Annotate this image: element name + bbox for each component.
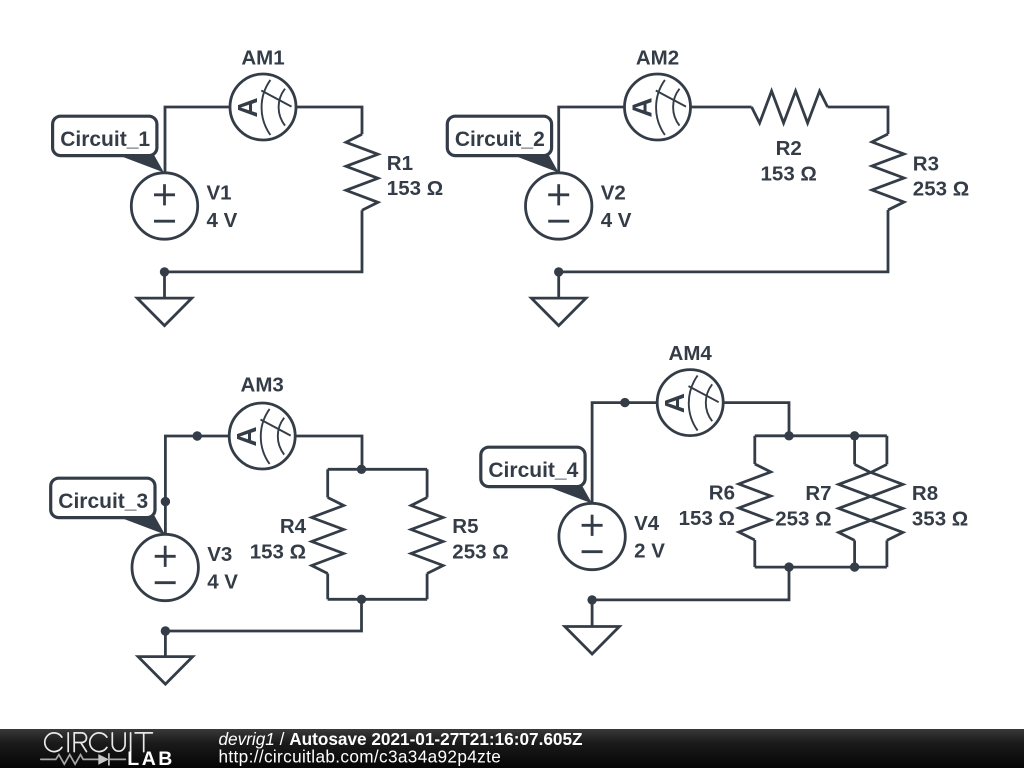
wire V4 top to AM4 left (Circuit 4) [592, 403, 657, 504]
svg-text:R6: R6 [709, 482, 735, 505]
wire R4 top lead [326, 469, 329, 497]
voltage source V1 [131, 173, 197, 239]
wire AM4 right to parallel rail [723, 403, 789, 436]
svg-text:R5: R5 [452, 515, 478, 538]
wire node to ground (Circuit 3) [164, 631, 167, 657]
wire node to ground (Circuit 4) [591, 600, 594, 627]
label AM3 [241, 374, 284, 397]
svg-text:A: A [232, 97, 263, 117]
resistor R2 [752, 91, 828, 123]
svg-text:4 V: 4 V [207, 209, 238, 232]
label V4 value [634, 512, 665, 562]
wire rail to bottom wire circuit 3 [165, 599, 361, 631]
svg-text:R1: R1 [387, 152, 413, 175]
node junction dot circuit 3 [161, 626, 170, 635]
svg-text:253 Ω: 253 Ω [452, 541, 508, 564]
wire V2 top to AM2 left (Circuit 2) [559, 107, 625, 173]
CircuitLab logo CIRCUIT [41, 733, 153, 765]
wire AM3 right to parallel rail [295, 436, 362, 469]
svg-text:R8: R8 [912, 482, 938, 505]
label R1 value [387, 152, 443, 200]
junction dot bottom rail circuit 3 [357, 595, 366, 604]
label V1 value [207, 182, 238, 232]
svg-text:V2: V2 [601, 182, 626, 205]
node label Circuit_4 [481, 447, 592, 503]
svg-text:153 Ω: 153 Ω [250, 541, 306, 564]
svg-text:AM4: AM4 [669, 342, 713, 365]
label AM1 [241, 47, 284, 70]
svg-text:V4: V4 [634, 512, 660, 535]
wire R8 bottom lead [886, 540, 889, 567]
wire parallel bottom rail circuit 4 [755, 566, 887, 569]
node label Circuit_1 [53, 116, 164, 172]
svg-text:AM3: AM3 [241, 374, 284, 397]
wire AM2 right to R2 left [691, 106, 752, 109]
svg-text:Circuit_2: Circuit_2 [455, 128, 545, 151]
ammeter AM4 [657, 370, 723, 436]
label R8 value [912, 482, 968, 530]
svg-text:AM1: AM1 [241, 47, 284, 70]
svg-text:153 Ω: 153 Ω [679, 507, 735, 530]
wire R3 bottom to V2 bottom node [559, 210, 888, 272]
svg-text:Circuit_4: Circuit_4 [488, 459, 578, 482]
svg-text:V3: V3 [207, 543, 232, 566]
junction dot top rail circuit 3 [357, 465, 366, 474]
svg-text:153 Ω: 153 Ω [761, 162, 817, 185]
junction dot left wire circuit 3 [161, 497, 170, 506]
label R4 value [250, 515, 307, 564]
wire R7 bottom lead [853, 540, 856, 567]
svg-text:353 Ω: 353 Ω [912, 507, 968, 530]
ammeter AM2 [625, 74, 691, 140]
ground circuit 3 [138, 657, 193, 685]
svg-text:4 V: 4 V [601, 209, 632, 232]
node junction dot circuit 1 [160, 267, 169, 276]
wire AM1 right to R1 top [296, 107, 362, 134]
wire rail to bottom wire circuit 4 [592, 567, 789, 600]
label AM2 [636, 47, 679, 70]
wire R5 top lead [426, 469, 429, 497]
svg-text:A: A [231, 426, 262, 446]
label R7 value [775, 482, 831, 530]
junction dot top wire circuit 4 [620, 398, 629, 407]
label V3 value [207, 543, 238, 593]
wire R4 bottom lead [326, 574, 329, 600]
junction dot top rail A circuit 4 [784, 431, 793, 440]
resistor R4 [312, 498, 344, 574]
svg-text:2 V: 2 V [634, 540, 665, 563]
node junction dot circuit 4 [587, 595, 596, 604]
junction dot bottom rail A circuit 4 [784, 562, 793, 571]
junction dot bottom rail B circuit 4 [850, 562, 859, 571]
voltage source V2 [526, 173, 592, 239]
svg-text:Circuit_1: Circuit_1 [60, 128, 150, 151]
label AM4 [669, 342, 713, 365]
label R3 value [913, 153, 969, 201]
svg-text:A: A [659, 393, 690, 413]
ammeter AM1 [230, 74, 296, 140]
svg-text:253 Ω: 253 Ω [775, 507, 831, 530]
resistor R3 [872, 134, 904, 210]
resistor R7 [839, 464, 871, 540]
wire R6 bottom lead [753, 540, 756, 567]
wire node to ground (Circuit 2) [557, 272, 560, 298]
label R5 value [452, 515, 508, 564]
wire R6 top lead [753, 436, 756, 464]
resistor R8 [871, 464, 903, 540]
svg-text:4 V: 4 V [207, 571, 238, 594]
resistor R5 [411, 498, 443, 574]
resistor R6 [739, 464, 771, 540]
label V2 value [601, 182, 632, 232]
svg-text:Circuit_3: Circuit_3 [58, 490, 148, 513]
svg-text:153 Ω: 153 Ω [387, 177, 443, 200]
svg-text:R4: R4 [280, 515, 307, 538]
node label Circuit_3 [51, 478, 165, 534]
wire R7 top lead [853, 436, 856, 465]
wire node to ground (Circuit 1) [163, 272, 166, 298]
junction dot top wire circuit 3 [193, 431, 202, 440]
svg-text:R2: R2 [776, 137, 802, 160]
junction dot top rail B circuit 4 [850, 431, 859, 440]
wire V3 top to AM3 left (Circuit 3) [165, 436, 229, 534]
svg-text:R3: R3 [913, 153, 939, 176]
wire R1 bottom to V1 bottom node [165, 210, 363, 272]
svg-text:LAB: LAB [127, 748, 175, 768]
wire R8 top lead [886, 436, 889, 465]
node junction dot circuit 2 [554, 267, 563, 276]
svg-text:V1: V1 [207, 182, 232, 205]
ammeter AM3 [229, 403, 295, 469]
voltage source V4 [559, 503, 625, 569]
wire R5 bottom lead [426, 574, 429, 600]
footer bar [0, 729, 1024, 768]
wire parallel top rail circuit 3 [328, 468, 427, 471]
svg-text:http://circuitlab.com/c3a34a92: http://circuitlab.com/c3a34a92p4zte [219, 747, 502, 767]
ground circuit 1 [137, 298, 192, 326]
wire R2 right to R3 top [828, 107, 888, 134]
resistor R1 [346, 134, 378, 210]
wire parallel top rail circuit 4 [755, 434, 887, 437]
label R2 value [761, 137, 817, 185]
label R6 value [679, 482, 735, 531]
node label Circuit_2 [447, 116, 558, 172]
svg-text:A: A [627, 97, 658, 117]
ground circuit 2 [531, 298, 586, 326]
svg-text:253 Ω: 253 Ω [913, 178, 969, 201]
wire V1 top to AM1 left (Circuit 1) [165, 107, 230, 173]
voltage source V3 [132, 534, 198, 600]
ground circuit 4 [565, 627, 620, 655]
svg-text:R7: R7 [805, 482, 831, 505]
wire parallel bottom rail circuit 3 [328, 598, 427, 601]
svg-text:AM2: AM2 [636, 47, 679, 70]
